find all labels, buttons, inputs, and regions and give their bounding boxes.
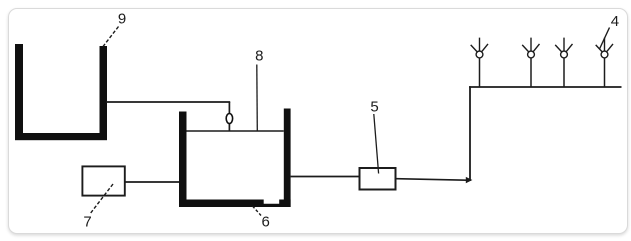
svg-text:7: 7 xyxy=(83,214,91,231)
sprinkler 4 riser xyxy=(604,58,606,88)
leader to 7 xyxy=(90,184,114,215)
tank 6 right wall xyxy=(284,109,291,208)
float valve xyxy=(226,114,232,124)
leader to 6 xyxy=(253,206,262,216)
tank 6 left wall xyxy=(179,112,187,208)
leader to 8 xyxy=(256,65,259,132)
pipe tank9 horizontal xyxy=(106,101,230,103)
sprinkler 1 head circle xyxy=(476,51,483,58)
tank 9 bottom xyxy=(15,133,107,140)
main riser pipe xyxy=(469,86,471,181)
pipe tank9 down segment xyxy=(228,102,230,131)
leader to 9 xyxy=(103,27,119,47)
pipe box7 to tank xyxy=(125,181,180,183)
leader to 5 xyxy=(374,114,379,174)
tank 9 right wall xyxy=(100,46,108,140)
pipe tank to box5 xyxy=(291,176,359,178)
sprinkler 3 riser xyxy=(563,58,565,88)
manifold pipe xyxy=(469,86,621,88)
svg-text:5: 5 xyxy=(370,99,378,116)
tank 6 top line xyxy=(187,130,284,132)
box 7 xyxy=(82,166,124,195)
sprinkler 3 spray lines xyxy=(555,38,572,52)
svg-text:4: 4 xyxy=(611,13,619,30)
svg-text:6: 6 xyxy=(262,214,270,231)
sprinkler 1 spray lines xyxy=(471,38,488,52)
sprinkler 2 riser xyxy=(530,58,532,88)
sprinkler 4 spray lines xyxy=(596,38,613,52)
sprinkler 2 head circle xyxy=(528,51,535,58)
leader to 4 xyxy=(600,28,610,50)
sprinkler 3 head circle xyxy=(561,51,568,58)
sprinkler 1 riser xyxy=(479,58,481,88)
tank 6 bottom with outlet notch xyxy=(179,200,291,208)
tank 9 left wall xyxy=(15,44,23,140)
svg-text:8: 8 xyxy=(255,48,263,65)
sprinkler 4 head circle xyxy=(601,51,608,58)
svg-text:9: 9 xyxy=(118,11,126,28)
pipe box5 to main xyxy=(397,179,467,181)
arrowhead at main pipe xyxy=(466,177,473,183)
sprinkler 2 spray lines xyxy=(522,38,539,52)
box 5 xyxy=(360,168,396,190)
